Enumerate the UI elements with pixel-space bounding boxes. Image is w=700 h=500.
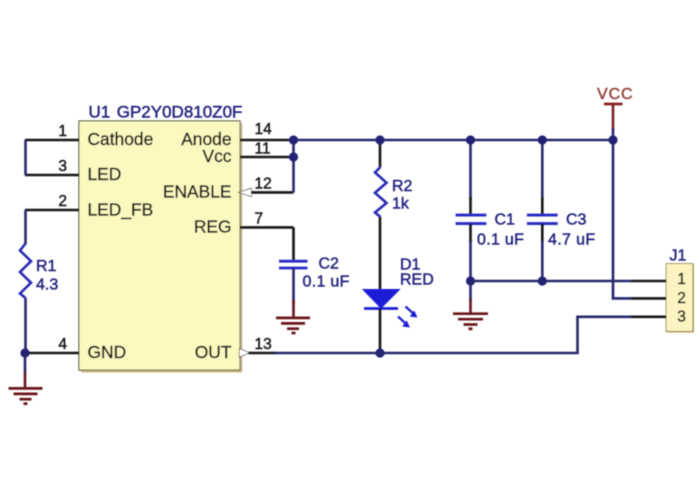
wire: OUT line to J1 pin 3 [275,317,632,353]
capacitor C2 [279,261,308,268]
U1 pin 4 stub (GND) [25,352,80,355]
svg-text:4: 4 [58,336,67,353]
J1 pin 1 stub [631,280,667,283]
svg-text:LED: LED [88,164,122,184]
svg-text:LED_FB: LED_FB [88,200,154,220]
svg-text:1: 1 [677,271,686,288]
VCC power symbol [604,104,623,130]
wire: D1 cathode to OUT line [379,309,382,354]
svg-text:ENABLE: ENABLE [163,182,232,202]
wire: pin1 to pin3 left U (net LED) [24,140,27,175]
svg-text:C1: C1 [495,212,516,229]
junction: left GND node [20,348,29,357]
wire: pin2 LED_FB down to R1 [24,210,27,245]
wire: vertical from pin14 junction down past pin11 to ENABLE [292,140,295,192]
U1 pin 2 stub (LED_FB) [25,209,80,212]
svg-text:3: 3 [58,158,67,175]
U1 pin 3 stub (LED) [25,174,80,177]
U1 pin 14 stub (Anode) [240,139,294,142]
svg-text:GND: GND [88,342,127,362]
wire: top rail to R2 [379,140,382,167]
svg-text:RED: RED [400,272,434,289]
ground symbol (under C2) [276,300,310,333]
U1 pin 7 stub (REG) [240,226,294,229]
wire: VCC top rail [294,139,614,142]
ground symbol (left) [9,353,43,404]
svg-text:OUT: OUT [195,342,232,362]
svg-text:1: 1 [58,123,67,140]
U1 pin 1 stub (Cathode) [25,139,80,142]
svg-text:4.3: 4.3 [36,277,58,294]
svg-text:13: 13 [255,336,272,353]
svg-text:2: 2 [58,193,67,210]
svg-text:7: 7 [255,210,264,227]
svg-text:J1: J1 [670,248,687,265]
svg-text:VCC: VCC [597,86,633,103]
svg-text:0.1 uF: 0.1 uF [303,274,350,291]
U1 pin 11 stub (Vcc) [240,156,294,159]
J1 pin 3 stub [631,315,667,318]
svg-text:R1: R1 [36,258,57,275]
svg-text:Cathode: Cathode [88,129,154,149]
svg-text:14: 14 [255,121,273,138]
wire: top rail to C3 [541,140,544,215]
U1 pin 13 stub (OUT) with output arrow [240,349,276,357]
wire: C1 to GND rail [469,224,472,281]
LED D1 [363,290,418,328]
junction: pin11/vcc node [289,152,298,161]
wire: R2 to D1 anode [379,217,382,290]
J1 pin 2 stub [631,297,667,300]
svg-text:0.1 uF: 0.1 uF [477,232,524,249]
wire: GND bottom rail to J1 pin 1 [471,280,632,283]
resistor R2 [375,167,387,217]
wire: VCC symbol to rail and down to J1 pin 2 [613,128,631,298]
junction: VCC rail node [608,135,617,144]
capacitor C1 [456,215,487,224]
junction: C1 bottom node [466,276,475,285]
svg-text:2: 2 [677,290,686,307]
junction: C3 bottom node [538,276,547,285]
svg-text:4.7 uF: 4.7 uF [548,232,595,249]
svg-text:11: 11 [255,141,271,158]
capacitor C3 [527,215,558,224]
svg-text:1k: 1k [392,196,410,213]
wire: C2 to ground [292,268,295,303]
ground symbol (under C1) [453,281,488,329]
svg-text:C3: C3 [566,212,587,229]
junction: C1 top node [466,135,475,144]
junction: D1/OUT node [375,348,384,357]
connector J1 body [667,264,694,332]
svg-text:3: 3 [677,308,686,325]
IC U1 body [80,122,242,372]
wire: C3 to GND rail [541,224,544,281]
svg-text:C2: C2 [319,256,340,273]
resistor R1 [20,244,31,299]
svg-text:REG: REG [194,217,232,237]
svg-text:R2: R2 [392,178,413,195]
wire: R1 to GND junction [24,298,27,353]
svg-text:12: 12 [255,175,272,192]
junction: C3 top node [538,135,547,144]
junction: pin14/anode node [289,135,298,144]
wire: top rail to C1 [469,140,472,215]
wire: REG down to C2 [292,227,295,261]
svg-text:Vcc: Vcc [203,146,232,166]
junction: R2 top node [375,135,384,144]
U1 pin 12 stub (ENABLE) with input arrow [240,189,294,196]
